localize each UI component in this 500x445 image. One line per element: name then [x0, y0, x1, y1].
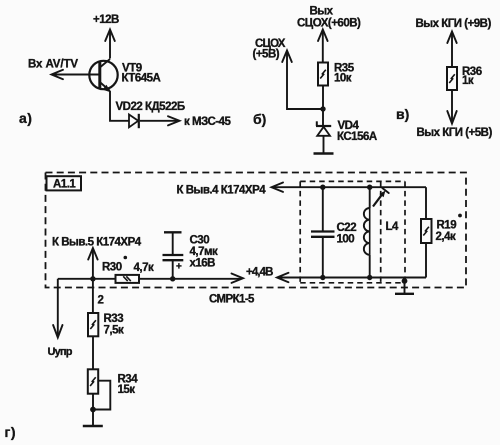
resistor R19: [421, 187, 432, 277]
arrow right to MZS-45: [168, 116, 180, 125]
svg-text:+12В: +12В: [93, 14, 119, 26]
wire base VT9: [53, 74, 100, 76]
wire tank bottom: [278, 277, 427, 279]
resistor R35: [318, 63, 328, 86]
arrow left to +4,4V: [277, 273, 289, 282]
svg-text:4,7к: 4,7к: [134, 262, 154, 274]
svg-text:L4: L4: [386, 221, 400, 233]
svg-text:Вх AV/TV: Вх AV/TV: [28, 59, 78, 71]
arrow down Uupr: [53, 325, 62, 338]
wire Uupr branch: [57, 279, 59, 336]
arrow up to vyv.5: [88, 248, 97, 260]
svg-text:R19: R19: [437, 220, 457, 232]
node bus C30: [170, 276, 175, 281]
L4 tuning arrow: [373, 188, 389, 207]
wire R34 to ground: [92, 394, 94, 426]
svg-text:в): в): [396, 106, 409, 122]
wire shield to ground: [404, 278, 406, 294]
ground shield: [395, 293, 414, 295]
capacitor C30 with ground: [163, 232, 184, 278]
svg-text:С30: С30: [190, 235, 210, 247]
wire R33 branch: [92, 279, 94, 313]
svg-text:х16В: х16В: [190, 258, 216, 270]
wire R36 down: [451, 90, 453, 122]
asterisk mark R19: [458, 214, 462, 218]
module A1.1 dashed border: [46, 173, 467, 288]
resistor R36: [447, 67, 457, 90]
ground: [314, 152, 334, 154]
wire R35 to VD4: [322, 86, 324, 127]
svg-text:Вых КГИ (+9В): Вых КГИ (+9В): [416, 18, 492, 30]
svg-text:К Выв.5 К174ХР4: К Выв.5 К174ХР4: [52, 237, 142, 249]
svg-text:2: 2: [98, 295, 104, 307]
svg-text:КС156А: КС156А: [337, 131, 377, 143]
svg-text:СЦОХ(+60В): СЦОХ(+60В): [297, 18, 361, 30]
arrow left Vx AV/TV: [52, 70, 64, 79]
svg-text:КТ645А: КТ645А: [122, 73, 161, 85]
shield box tank dashed: [300, 181, 405, 282]
label box A1.1: [47, 176, 82, 190]
wire R34 tap: [93, 381, 110, 410]
node bottom L4: [367, 275, 372, 280]
diode VD22: [129, 114, 139, 128]
wire branch to SCOH +5V: [287, 51, 323, 109]
svg-text:2,4к: 2,4к: [436, 231, 456, 243]
wire VD4 to ground: [323, 136, 325, 153]
svg-text:Вых КГИ (+5В): Вых КГИ (+5В): [417, 127, 493, 139]
wire tank top: [272, 186, 426, 188]
svg-text:(+5В): (+5В): [253, 49, 280, 61]
svg-text:Uупр: Uупр: [48, 346, 73, 358]
svg-text:С22: С22: [337, 222, 357, 234]
svg-text:к МЗС-45: к МЗС-45: [184, 116, 231, 128]
svg-text:К Выв.4 К174ХР4: К Выв.4 К174ХР4: [177, 185, 267, 197]
wire to R35: [322, 31, 324, 63]
svg-text:А1.1: А1.1: [53, 178, 76, 190]
svg-text:+4,4В: +4,4В: [246, 267, 273, 279]
wire emitter VT9 down: [110, 91, 129, 121]
svg-text:1к: 1к: [462, 75, 474, 87]
wire bus left: [58, 278, 116, 280]
arrow right to +4,4V: [232, 274, 244, 283]
ground R34: [83, 425, 103, 427]
resistor R34: [88, 369, 98, 393]
inductor L4: [364, 187, 370, 277]
svg-text:100: 100: [337, 234, 355, 246]
arrow up KGI +9V: [447, 32, 456, 44]
resistor R30: [116, 275, 140, 283]
svg-text:10к: 10к: [334, 73, 352, 85]
wire vyv.5 down to bus: [92, 250, 94, 279]
svg-text:R33: R33: [104, 313, 124, 325]
svg-text:СМРК1-5: СМРК1-5: [209, 294, 255, 306]
arrow down KGI +5V: [447, 111, 456, 124]
svg-text:+: +: [176, 262, 182, 273]
svg-text:7,5к: 7,5к: [104, 325, 124, 337]
arrow up to +12V: [105, 30, 115, 42]
arrow up SCOH +5V: [282, 51, 292, 63]
capacitor C22: [311, 187, 335, 277]
svg-text:б): б): [253, 111, 266, 127]
transistor VT9: [89, 59, 117, 92]
svg-text:г): г): [5, 424, 17, 440]
wire to R36: [451, 33, 453, 67]
node R34 tap: [90, 407, 96, 413]
node top L4: [367, 185, 372, 190]
wire bus right: [139, 278, 242, 280]
zener diode VD4: [316, 121, 331, 136]
node top C22: [320, 185, 325, 190]
svg-text:R30: R30: [102, 262, 122, 274]
node junction: [320, 106, 325, 111]
wire diode to MZS-45: [140, 120, 178, 122]
node bottom C22: [320, 275, 325, 280]
svg-text:а): а): [19, 110, 32, 126]
svg-text:4,7мк: 4,7мк: [190, 246, 218, 258]
wire collector VT9 up: [109, 31, 111, 59]
resistor R33: [88, 313, 98, 336]
svg-text:15к: 15к: [118, 384, 136, 396]
arrow up Vyh SCOH: [318, 30, 328, 42]
node shield ground: [402, 278, 408, 284]
arrow left to vyv.4: [272, 183, 284, 192]
svg-text:VD22 КД522Б: VD22 КД522Б: [116, 101, 185, 113]
node bus R33: [90, 276, 95, 281]
svg-text:Вых: Вых: [310, 6, 334, 18]
wire R33 to R34: [92, 336, 94, 369]
